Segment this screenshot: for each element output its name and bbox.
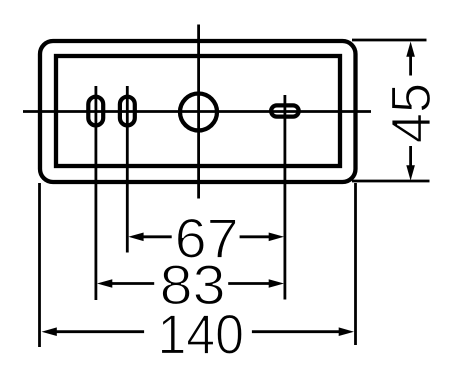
center circle hole — [180, 94, 217, 131]
dimension 67: right arrow — [240, 235, 272, 238]
wire: bottom extension line for 45 — [352, 180, 430, 183]
wire: horizontal centerline — [23, 110, 371, 113]
slot hole 1 — [88, 97, 103, 126]
right oval hole — [271, 105, 299, 116]
dimension 140: left arrow — [52, 330, 144, 333]
inner rectangle — [56, 56, 340, 166]
wire: vertical line through slot 1 (extension line) — [95, 86, 98, 300]
svg-text:140: 140 — [157, 302, 244, 365]
wire: vertical line through right oval (extension line) — [283, 95, 286, 300]
dimension 83: left arrow — [108, 282, 154, 285]
slot hole 2 — [120, 97, 135, 126]
wire: top extension line for 45 — [352, 39, 427, 42]
wire: vertical line through slot 2 (extension line) — [126, 86, 129, 253]
wire: vertical centerline through circle — [197, 25, 200, 199]
outer plate outline (rounded rectangle) — [40, 41, 356, 182]
wire: left extension line for 140 — [38, 183, 41, 347]
dimension 67: left arrow — [140, 235, 172, 238]
dimension 140: right arrow — [252, 330, 343, 333]
dimension 45: top arrow — [409, 53, 412, 76]
dimension 45: bottom arrow — [409, 146, 412, 169]
svg-text:45: 45 — [379, 83, 442, 143]
wire: right extension line for 140 — [354, 183, 357, 345]
dimension 83: right arrow — [228, 282, 272, 285]
